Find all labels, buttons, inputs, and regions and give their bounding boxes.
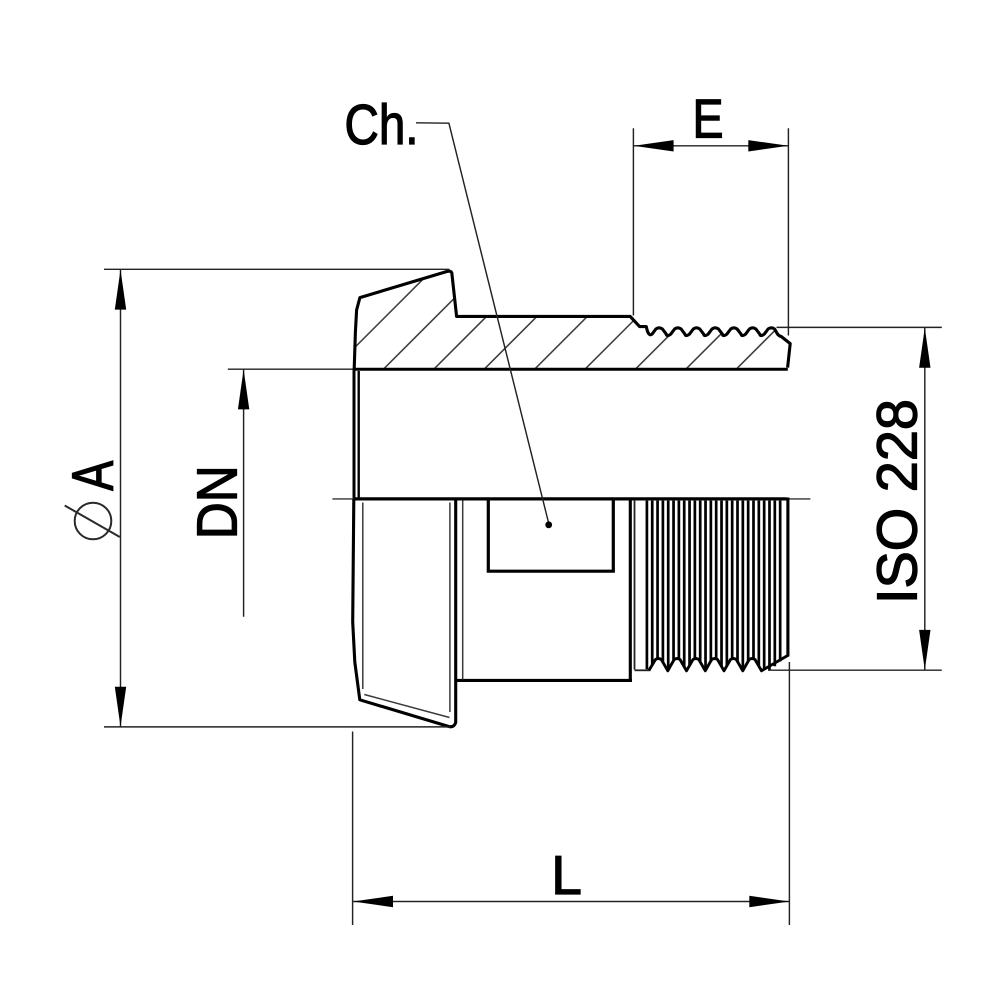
svg-text:E: E bbox=[693, 88, 724, 150]
dimension A (flange outside diameter) bbox=[104, 269, 450, 727]
section hatching (45 deg) of cut wall bbox=[328, 261, 896, 375]
dimension DN (bore) bbox=[228, 369, 353, 617]
section outline: flange, hex band and thread crest profile bbox=[354, 271, 790, 369]
hex body section (front view) bbox=[456, 498, 632, 681]
bore line (inner wall of section) bbox=[353, 368, 788, 371]
diameter symbol for A bbox=[65, 503, 120, 540]
left end-face edges (section half) bbox=[354, 368, 359, 499]
part centerline / section boundary bbox=[332, 497, 810, 500]
svg-text:Ch.: Ch. bbox=[345, 93, 419, 157]
thread run-out edges bbox=[635, 500, 651, 670]
svg-text:ISO 228: ISO 228 bbox=[866, 399, 930, 604]
svg-text:DN: DN bbox=[186, 465, 250, 539]
leader line from Ch. label to wrench flat bbox=[416, 123, 552, 528]
flange cone silhouette (front view, lower half) bbox=[353, 499, 456, 727]
svg-text:L: L bbox=[551, 844, 582, 906]
thread root zigzag and end chamfer (front view) bbox=[649, 498, 788, 671]
wrench flat square (Ch.) bbox=[488, 498, 613, 571]
thread crest/root lines (front view) bbox=[647, 501, 780, 670]
dimension E (thread length) bbox=[633, 128, 788, 335]
dimension ISO 228 (thread size) bbox=[768, 327, 942, 670]
svg-text:A: A bbox=[61, 461, 126, 491]
dimension L (overall length) bbox=[353, 662, 790, 925]
